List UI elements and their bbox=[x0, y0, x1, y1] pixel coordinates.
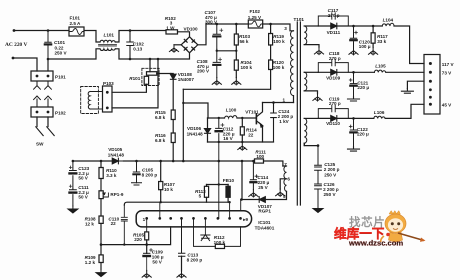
capacitor C119 (snubber) bbox=[318, 105, 348, 118]
inductor L105 bbox=[374, 70, 385, 72]
transformer T101 core bbox=[297, 22, 300, 205]
wire bottom rail to IC pin3 bbox=[101, 227, 171, 245]
resistor R110 bbox=[100, 161, 102, 168]
capacitor C121 bbox=[350, 72, 356, 96]
svg-text:1N4007: 1N4007 bbox=[178, 77, 195, 82]
transformer secondary winding 3 bbox=[304, 118, 307, 145]
inductor L101 (line filter) bbox=[100, 40, 115, 42]
wire bridge + to 300V rail bbox=[198, 24, 206, 45]
resistor R114 bbox=[241, 118, 243, 142]
wire collector to transformer pin 1 bbox=[263, 102, 294, 104]
ground (C111 arrow) bbox=[68, 206, 78, 213]
svg-text:12 k: 12 k bbox=[85, 221, 94, 226]
svg-text:50 V: 50 V bbox=[152, 260, 162, 265]
svg-text:250 V: 250 V bbox=[324, 172, 337, 177]
svg-text:220: 220 bbox=[134, 237, 142, 242]
svg-text:0.13: 0.13 bbox=[133, 47, 142, 52]
diode VD110 bbox=[318, 117, 353, 119]
inductor L106 bbox=[374, 116, 385, 118]
wire 45V line bbox=[354, 104, 425, 118]
wire connector ground pin bbox=[407, 81, 424, 88]
wire emitter/ground rail bbox=[208, 141, 274, 143]
svg-text:100 μ: 100 μ bbox=[359, 44, 371, 49]
wire P103 bottom to return rail bbox=[112, 59, 158, 108]
wire base feed vertical bbox=[182, 89, 184, 161]
capacitor C123 bbox=[70, 161, 77, 189]
svg-text:270 p: 270 p bbox=[329, 56, 341, 61]
svg-text:F101: F101 bbox=[70, 15, 81, 20]
svg-text:F102: F102 bbox=[250, 9, 261, 14]
wire 73V line bbox=[354, 71, 425, 73]
capacitor C107 bbox=[213, 24, 220, 49]
resistor R102 bbox=[166, 30, 178, 34]
svg-text:22: 22 bbox=[248, 133, 254, 138]
wire C107/C108 mid to R103/R104 bbox=[217, 50, 237, 52]
svg-text:P101: P101 bbox=[55, 75, 66, 80]
svg-text:5: 5 bbox=[199, 194, 202, 199]
wire bbox=[14, 30, 69, 32]
resistor R119 bbox=[270, 24, 272, 34]
capacitor C114 bbox=[250, 161, 256, 190]
wire bbox=[115, 31, 166, 43]
capacitor C122 bbox=[350, 118, 356, 146]
svg-text:73 V: 73 V bbox=[442, 70, 452, 75]
svg-text:L100: L100 bbox=[226, 107, 237, 112]
svg-text:TDA4601: TDA4601 bbox=[255, 225, 275, 230]
svg-text:6.8 k: 6.8 k bbox=[155, 138, 166, 143]
connector P102 bbox=[31, 107, 53, 117]
wire w3 bottom rail bbox=[304, 143, 318, 145]
svg-text:22: 22 bbox=[111, 221, 117, 226]
pin 7 lead (from emitter rail) bbox=[218, 142, 220, 218]
svg-text:250 V: 250 V bbox=[55, 51, 68, 56]
wire w1 bottom to ground bbox=[304, 45, 319, 48]
svg-text:1: 1 bbox=[143, 217, 146, 222]
wire base feed jog to L100 bbox=[183, 103, 208, 118]
wire return rail to L101 bbox=[48, 49, 190, 59]
svg-text:16 V: 16 V bbox=[223, 136, 233, 141]
connector output bbox=[424, 55, 440, 115]
capacitor C105 bbox=[133, 161, 139, 183]
svg-text:L101: L101 bbox=[104, 33, 115, 38]
svg-text:50 V: 50 V bbox=[78, 176, 88, 181]
wire pin2 feedback rail bbox=[124, 202, 229, 205]
svg-text:56 k: 56 k bbox=[240, 39, 249, 44]
resistor R117 bbox=[372, 26, 374, 33]
svg-text:L105: L105 bbox=[375, 63, 386, 68]
connector pins arrows bbox=[34, 81, 52, 89]
resistor R105 bbox=[146, 218, 148, 232]
svg-text:117 V: 117 V bbox=[442, 62, 455, 67]
svg-text:100 k: 100 k bbox=[273, 39, 285, 44]
ground (C126 arrow) bbox=[313, 206, 323, 213]
IC pin dots bbox=[145, 217, 242, 220]
IC IC101 TDA4601 bbox=[136, 211, 251, 227]
capacitor C113 bbox=[179, 218, 185, 256]
svg-text:220 μ: 220 μ bbox=[357, 85, 369, 90]
ground (C109) bbox=[142, 270, 151, 277]
diode VD109 bbox=[318, 71, 353, 73]
ground (C108) bbox=[212, 78, 221, 85]
labels transformer/secondary bbox=[283, 8, 455, 199]
capacitor C125 bbox=[315, 146, 322, 184]
transformer secondary winding 2 bbox=[304, 72, 307, 91]
resistor R113 bbox=[204, 186, 208, 197]
potentiometer RP1 bbox=[100, 179, 102, 191]
resistor R107 bbox=[160, 161, 162, 182]
svg-text:1 W: 1 W bbox=[166, 25, 175, 30]
svg-text:1: 1 bbox=[283, 97, 286, 102]
svg-text:50 V: 50 V bbox=[78, 195, 88, 200]
pin 2 lead bbox=[159, 202, 161, 218]
switch SW bbox=[37, 117, 48, 127]
svg-text:45 V: 45 V bbox=[442, 103, 452, 108]
svg-text:AC 220 V: AC 220 V bbox=[5, 42, 27, 48]
svg-text:220 μ: 220 μ bbox=[357, 132, 369, 137]
svg-text:1.25 V: 1.25 V bbox=[248, 15, 262, 20]
capacitor C124 bbox=[271, 103, 277, 143]
wire w2 bottom to ground bbox=[304, 91, 317, 94]
wire VD107 node vertical to rail bbox=[241, 161, 243, 200]
diode VD105 bbox=[112, 158, 118, 164]
transformer secondary winding 1 bbox=[304, 26, 307, 45]
capacitor C120 bbox=[350, 26, 356, 48]
svg-text:100: 100 bbox=[256, 154, 264, 159]
ground (C114) bbox=[249, 190, 258, 197]
posistor R101 (dashed box) bbox=[142, 68, 159, 85]
capacitor C118 (snubber) bbox=[318, 59, 348, 72]
connector P103 bbox=[103, 86, 113, 112]
diode VD106 bbox=[205, 129, 211, 133]
svg-text:100 k: 100 k bbox=[241, 65, 253, 70]
watermark bbox=[334, 211, 426, 248]
svg-text:3: 3 bbox=[284, 26, 287, 31]
diode VD107 bbox=[241, 191, 286, 199]
svg-text:L104: L104 bbox=[383, 17, 394, 22]
wire base rail bbox=[208, 117, 257, 119]
svg-text:200 V: 200 V bbox=[197, 68, 210, 73]
ground (R109 arrow) bbox=[96, 270, 106, 277]
ferrite bead FB10 bbox=[226, 186, 230, 197]
svg-text:5: 5 bbox=[283, 194, 286, 199]
resistor R115 bbox=[171, 110, 175, 120]
capacitor C110 bbox=[121, 205, 127, 245]
resistor R109 bbox=[100, 245, 102, 255]
svg-text:270 p: 270 p bbox=[328, 13, 340, 18]
svg-text:RP1-9: RP1-9 bbox=[110, 192, 123, 197]
svg-text:VT101: VT101 bbox=[245, 109, 259, 114]
svg-text:100 k: 100 k bbox=[214, 240, 226, 245]
resistor R120 bbox=[269, 60, 273, 70]
resistor R111 bbox=[255, 159, 264, 163]
svg-text:VD100: VD100 bbox=[184, 26, 198, 31]
connector P101 bbox=[31, 71, 53, 81]
svg-text:R101: R101 bbox=[129, 76, 140, 81]
svg-text:25 V: 25 V bbox=[258, 185, 268, 190]
svg-text:10 k: 10 k bbox=[164, 187, 173, 192]
wire main horizontal rail (VD105/R111) bbox=[73, 161, 283, 166]
svg-text:SW: SW bbox=[36, 142, 44, 147]
transformer feedback winding bbox=[284, 166, 287, 191]
svg-text:FB10: FB10 bbox=[223, 178, 235, 183]
inductor L100 bbox=[225, 116, 238, 118]
pin 8 lead bbox=[229, 202, 231, 218]
svg-text:100 k: 100 k bbox=[273, 65, 285, 70]
node AC line top terminal bbox=[13, 29, 16, 32]
fuse F102 bbox=[248, 20, 262, 28]
svg-text:8 200 p: 8 200 p bbox=[187, 258, 203, 263]
svg-text:7: 7 bbox=[284, 162, 287, 167]
labels middle bbox=[78, 107, 293, 264]
svg-text:VD109: VD109 bbox=[326, 75, 340, 80]
svg-text:250 V: 250 V bbox=[324, 192, 337, 197]
resistor R116 bbox=[171, 133, 175, 143]
capacitor C111 bbox=[70, 189, 77, 206]
svg-text:6: 6 bbox=[287, 177, 290, 182]
ground (bridge hot gnd) bbox=[174, 44, 181, 46]
ground (R114 emitter rail) bbox=[238, 143, 247, 150]
svg-text:VD110: VD110 bbox=[326, 121, 340, 126]
wire bbox=[13, 58, 37, 71]
labels primary left bbox=[5, 9, 285, 146]
capacitor C112 bbox=[216, 118, 222, 142]
wire VD106/C112 loop left vertical bbox=[207, 118, 209, 142]
pin 9 lead to VD107 bbox=[240, 200, 242, 211]
wire 117V line bbox=[354, 26, 425, 64]
svg-text:▸9: ▸9 bbox=[242, 217, 248, 222]
svg-text:270 p: 270 p bbox=[329, 101, 341, 106]
svg-text:1N4148: 1N4148 bbox=[108, 152, 125, 157]
diode VD108 bbox=[171, 74, 173, 111]
svg-text:1.2 k: 1.2 k bbox=[85, 260, 96, 265]
capacitor C109 bbox=[144, 252, 150, 254]
inductor L104 bbox=[382, 23, 394, 26]
svg-text:33 k: 33 k bbox=[377, 39, 386, 44]
svg-text:2.5 A: 2.5 A bbox=[70, 21, 81, 26]
svg-text:P103: P103 bbox=[103, 81, 114, 86]
fuse F101 bbox=[69, 27, 84, 36]
svg-text:6.8 k: 6.8 k bbox=[155, 115, 166, 120]
degaussing coil (dashed) bbox=[81, 87, 99, 114]
svg-text:VD111: VD111 bbox=[327, 30, 341, 35]
ground (R104) bbox=[232, 78, 241, 85]
wire pin 6 tap to ground bbox=[280, 179, 286, 189]
resistor R108 bbox=[100, 199, 102, 216]
bridge rectifier VD100 bbox=[181, 37, 198, 53]
svg-text:RGP1: RGP1 bbox=[258, 209, 271, 214]
wire bbox=[84, 31, 100, 43]
svg-text:P102: P102 bbox=[55, 111, 66, 116]
svg-text:3.3 k: 3.3 k bbox=[106, 173, 117, 178]
transformer T101 primary winding bbox=[291, 31, 294, 96]
resistor R103 bbox=[235, 24, 237, 34]
capacitor C108 bbox=[213, 49, 220, 77]
wire 300V rail bbox=[206, 24, 294, 31]
resistor R104 bbox=[235, 51, 237, 60]
svg-text:www.dzsc.com: www.dzsc.com bbox=[348, 239, 403, 248]
svg-text:L106: L106 bbox=[374, 110, 385, 115]
ground (IC pin 6) bbox=[204, 218, 206, 234]
diode VD111 bbox=[318, 25, 353, 27]
node AC line bottom terminal bbox=[12, 57, 15, 60]
svg-text:300 V: 300 V bbox=[205, 19, 218, 24]
svg-text:T101: T101 bbox=[294, 17, 305, 22]
svg-text:1 kV: 1 kV bbox=[279, 119, 289, 124]
resistor R112 bbox=[194, 218, 241, 246]
capacitor C102 bbox=[127, 31, 133, 60]
wire R113/FB10 top bracket bbox=[207, 184, 229, 186]
capacitor C101 bbox=[45, 31, 51, 60]
capacitor C117 (snubber) bbox=[318, 13, 348, 26]
ground (C113) bbox=[177, 270, 186, 277]
svg-text:8 200 p: 8 200 p bbox=[142, 172, 158, 177]
capacitor C126 bbox=[315, 184, 322, 206]
svg-text:1N4148: 1N4148 bbox=[187, 131, 204, 136]
transistor VT101 bbox=[255, 114, 257, 124]
